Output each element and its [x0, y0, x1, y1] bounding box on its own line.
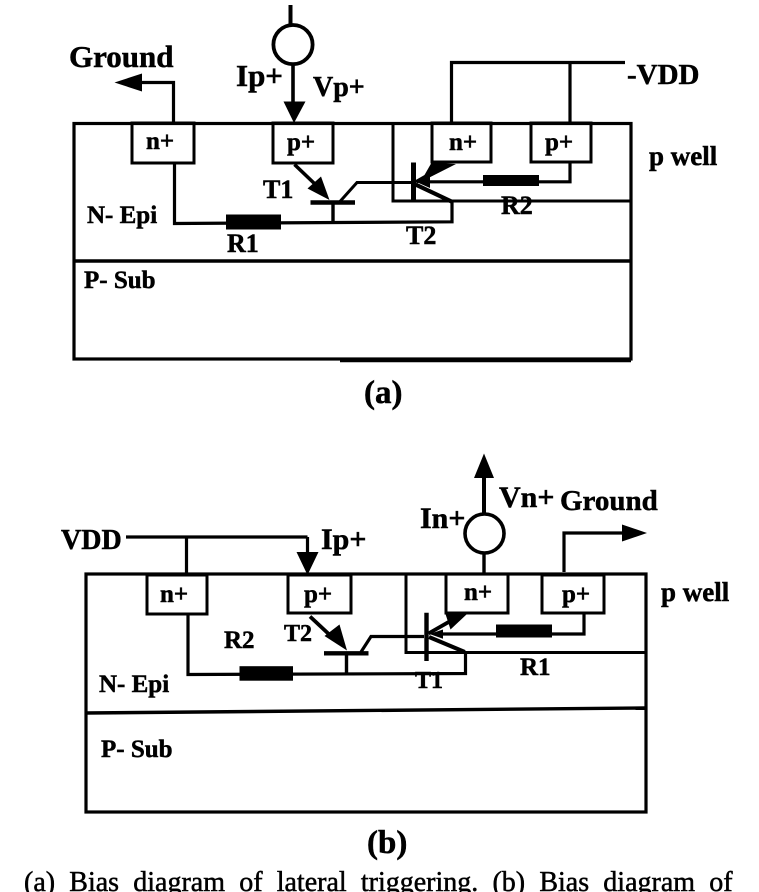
- svg-text:T1: T1: [263, 175, 293, 204]
- Vn+ arrow up: [474, 454, 494, 515]
- label Vp+: [313, 72, 365, 103]
- svg-text:T2: T2: [406, 221, 436, 250]
- p+ region in p-well (b): [542, 575, 604, 613]
- VDD rail wire (b): [126, 537, 319, 575]
- label T1 (b): [415, 668, 443, 694]
- current source circle (a): [273, 25, 312, 64]
- svg-text:n+: n+: [449, 129, 477, 156]
- n+ region in p-well (a): [432, 123, 491, 162]
- label VDD: [61, 525, 122, 556]
- svg-text:p+: p+: [304, 581, 332, 608]
- label N- Epi (a): [87, 202, 157, 229]
- resistor R1 (b): [496, 625, 552, 638]
- svg-text:R1: R1: [520, 654, 551, 681]
- svg-text:R2: R2: [224, 627, 255, 654]
- -VDD rail: [452, 63, 626, 124]
- P-Sub boundary line (a): [74, 259, 631, 262]
- label Ground (a): [69, 39, 174, 74]
- svg-text:Vp+: Vp+: [313, 72, 365, 103]
- R2 wire to p+ (a): [428, 162, 570, 182]
- svg-text:P- Sub: P- Sub: [101, 736, 173, 763]
- label -VDD: [627, 59, 700, 91]
- label Ip+: [236, 58, 283, 93]
- N-Epi box (a): [74, 124, 631, 362]
- label p well (a): [649, 141, 718, 171]
- label P- Sub (b): [101, 736, 173, 763]
- label R1 (a): [227, 229, 259, 258]
- svg-text:n+: n+: [146, 128, 174, 155]
- svg-text:Vn+: Vn+: [499, 481, 554, 514]
- resistor R2 (a): [483, 175, 539, 186]
- label R2 (b): [224, 627, 255, 654]
- transistor T2 (b): [310, 617, 424, 675]
- svg-text:N- Epi: N- Epi: [87, 202, 157, 229]
- svg-text:Ip+: Ip+: [321, 523, 366, 556]
- arrow into p+ anode (a): [284, 66, 306, 123]
- cathode wire with bottom run (a): [175, 163, 453, 224]
- svg-text:p+: p+: [545, 129, 573, 156]
- label (a): [364, 375, 402, 411]
- svg-text:p+: p+: [287, 129, 315, 156]
- svg-text:(a): (a): [364, 375, 402, 411]
- svg-text:p+: p+: [562, 581, 590, 608]
- p+ region in p-well (a): [531, 123, 591, 162]
- svg-text:(b): (b): [367, 825, 407, 861]
- svg-text:n+: n+: [160, 581, 188, 608]
- N-Epi box (b): [86, 574, 646, 812]
- p-well boundary (a): [393, 123, 631, 201]
- svg-text:-VDD: -VDD: [627, 59, 700, 91]
- wire feed to current source: [289, 5, 293, 24]
- svg-text:(a) Bias diagram of lateral tr: (a) Bias diagram of lateral triggering. …: [24, 867, 733, 892]
- ground arrow wire (b): [564, 525, 647, 573]
- label Ground (b): [560, 485, 658, 517]
- svg-text:N- Epi: N- Epi: [99, 671, 169, 698]
- svg-text:In+: In+: [420, 502, 465, 535]
- transistor T2 (a): [414, 163, 457, 203]
- n+ region 1 (a): [132, 123, 194, 163]
- svg-text:p well: p well: [661, 577, 730, 607]
- label T1 (a): [263, 175, 293, 204]
- resistor R2 (b): [240, 666, 294, 681]
- transistor T1 (a): [295, 165, 412, 224]
- label In+: [420, 502, 465, 535]
- svg-text:P- Sub: P- Sub: [84, 267, 156, 294]
- caption: [24, 867, 733, 892]
- label Vn+: [499, 481, 554, 514]
- wire below source (b): [482, 553, 485, 573]
- p+ region 2 (b): [288, 575, 351, 613]
- n+ region in p-well (b): [446, 574, 508, 613]
- svg-text:n+: n+: [464, 579, 492, 606]
- R1 wire to p+ (b): [441, 613, 584, 634]
- label R2 (a): [501, 191, 533, 220]
- svg-text:R1: R1: [227, 229, 259, 258]
- svg-text:R2: R2: [501, 191, 533, 220]
- label (b): [367, 825, 407, 861]
- svg-text:Ground: Ground: [69, 39, 174, 74]
- n+ region 1 (b): [147, 575, 207, 614]
- label T2 (b): [284, 621, 312, 647]
- svg-text:p well: p well: [649, 141, 718, 171]
- ground arrow wire (a): [115, 74, 174, 124]
- svg-text:Ground: Ground: [560, 485, 658, 517]
- label P- Sub (a): [84, 267, 156, 294]
- label p well (b): [661, 577, 730, 607]
- label R1 (b): [520, 654, 551, 681]
- label T2 (a): [406, 221, 436, 250]
- label Ip+ (b): [321, 523, 366, 556]
- svg-text:T2: T2: [284, 621, 312, 647]
- current source circle (b): [465, 514, 504, 553]
- p+ region anode (a): [273, 123, 333, 163]
- svg-text:VDD: VDD: [61, 525, 122, 556]
- P-Sub boundary line (b): [86, 708, 646, 713]
- p-well boundary (b): [406, 574, 646, 653]
- wire below n+ with bottom run (b): [188, 614, 466, 675]
- svg-text:T1: T1: [415, 668, 443, 694]
- svg-text:Ip+: Ip+: [236, 58, 283, 93]
- label N- Epi (b): [99, 671, 169, 698]
- resistor R1 (a): [226, 215, 281, 230]
- transistor T1 (b): [427, 613, 468, 662]
